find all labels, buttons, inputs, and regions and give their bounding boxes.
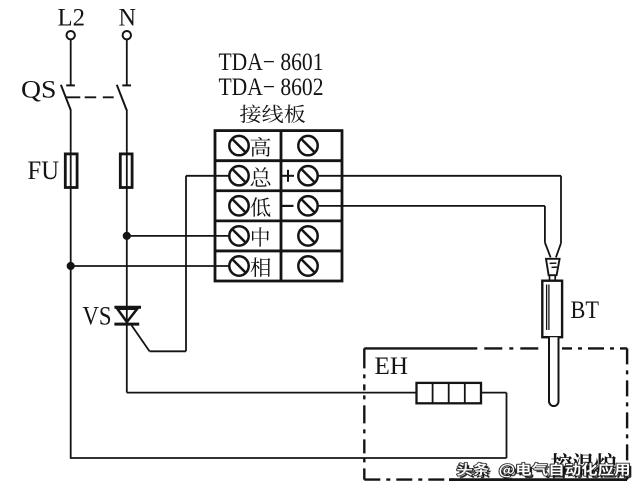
switch QS contact tick pole1 <box>66 84 75 86</box>
node junction L2/xiang <box>67 262 74 269</box>
label xiang char <box>251 257 271 277</box>
watermark toutiao <box>457 463 631 480</box>
svg-text:QS: QS <box>21 75 57 104</box>
wire through fuse FU pole2 <box>126 151 128 188</box>
terminal screw right zong <box>298 166 317 185</box>
switch QS blade pole2 <box>117 85 127 110</box>
terminal board divider <box>280 131 283 281</box>
terminal board label jiexianban <box>240 105 305 123</box>
heater EH element <box>417 383 482 403</box>
wire gate vertical <box>185 176 187 351</box>
terminal board row separator 3 <box>215 219 342 222</box>
furnace enclosure top edge <box>364 347 541 349</box>
label di char <box>251 197 271 217</box>
terminal board row separator 1 <box>215 159 342 162</box>
terminal screw left zong <box>229 166 248 185</box>
thermocouple BT neck <box>550 275 556 281</box>
terminal screw left zhong <box>229 226 248 245</box>
thermocouple BT body inner lines <box>547 285 549 331</box>
wire zhong row <box>127 235 230 237</box>
node junction N/zhong <box>123 232 130 239</box>
furnace enclosure bottom edge <box>364 478 627 480</box>
wire bottom return <box>70 457 507 459</box>
wire xiang row <box>71 265 230 267</box>
label kongwenlu (furnace) <box>551 453 616 476</box>
wire gate horizontal <box>150 350 187 352</box>
fuse FU pole1 <box>65 154 77 188</box>
wire VS cathode down <box>126 326 128 393</box>
thermocouple BT body <box>542 281 562 338</box>
wire L2 main down <box>70 188 72 458</box>
svg-text:L2: L2 <box>58 5 86 32</box>
terminal screw left gao <box>229 136 248 155</box>
furnace enclosure top edge right part <box>562 347 627 349</box>
wire plus to BT <box>318 176 561 258</box>
furnace enclosure left edge <box>363 348 365 479</box>
terminal board row separator 2 <box>215 189 342 192</box>
terminal N <box>123 31 131 39</box>
svg-text:TDA− 8602: TDA− 8602 <box>219 72 324 101</box>
svg-text:BT: BT <box>571 295 600 324</box>
plus sign <box>282 170 294 182</box>
wire N to thyristor <box>126 188 128 324</box>
furnace enclosure right edge <box>626 348 628 479</box>
terminal L2 <box>67 31 75 39</box>
label zong char <box>251 167 271 187</box>
wire heater right <box>481 392 507 394</box>
wire minus to BT <box>318 206 551 258</box>
switch QS blade pole1 <box>61 85 71 110</box>
svg-text:EH: EH <box>375 351 409 380</box>
thyristor VS <box>114 307 141 324</box>
thermocouple BT plug hatch lines <box>550 263 558 267</box>
wire L2 drop <box>70 40 72 86</box>
wire through fuse FU pole1 <box>70 151 72 188</box>
wire down right of heater <box>506 393 508 458</box>
minus sign <box>282 205 294 207</box>
terminal board row separator 4 <box>215 250 342 253</box>
fuse FU pole2 <box>120 154 132 188</box>
terminal screw right di <box>298 196 317 215</box>
label zhong char <box>252 227 269 247</box>
svg-text:VS: VS <box>83 302 112 331</box>
terminal screw right gao <box>298 136 317 155</box>
terminal screw right xiang <box>298 256 317 275</box>
terminal screw left xiang <box>229 256 248 275</box>
terminal board outline <box>215 131 342 281</box>
wire zong row to gate: horizontal <box>186 175 230 177</box>
label gao char <box>251 137 271 157</box>
terminal screw right zhong <box>298 226 317 245</box>
wire L2 to fuse <box>70 110 72 152</box>
thermocouple BT probe <box>549 337 559 406</box>
svg-text:FU: FU <box>28 156 60 185</box>
wire N drop <box>126 40 128 86</box>
terminal screw left di <box>229 196 248 215</box>
wire to heater EH <box>127 392 417 394</box>
switch QS contact tick pole2 <box>122 84 131 86</box>
svg-text:N: N <box>119 5 137 32</box>
switch QS linkage dashed <box>65 96 121 98</box>
wire gate diagonal to VS <box>132 325 150 351</box>
wire N to fuse <box>126 110 128 152</box>
thermocouple BT plug funnel <box>546 259 560 275</box>
